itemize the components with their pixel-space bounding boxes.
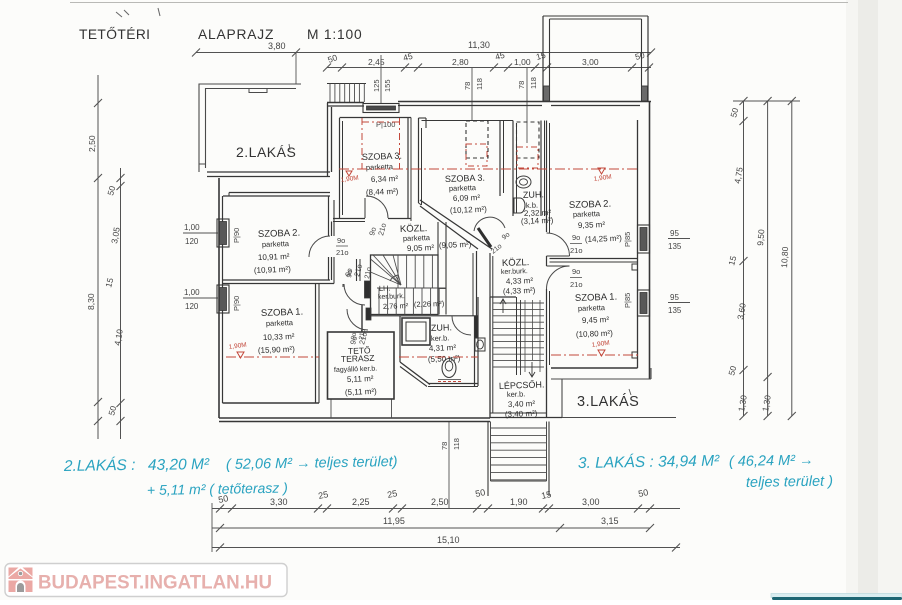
svg-text:ker.b.: ker.b. — [507, 389, 526, 399]
red dash-dot line lower left — [226, 356, 319, 358]
SZOBA3-right room walls — [418, 118, 420, 203]
door leaf on diagonal — [478, 228, 491, 247]
door arc SZOBA1-left — [344, 284, 365, 305]
dormer window right — [642, 86, 648, 101]
svg-text:parketta: parketta — [266, 318, 294, 328]
svg-text:BUDAPEST.INGATLAN.HU: BUDAPEST.INGATLAN.HU — [38, 572, 272, 594]
top dimension line 50/2,45/45/2,80/45/1,00/15/3,00/50 — [327, 67, 651, 69]
svg-text:1,00: 1,00 — [514, 57, 531, 67]
svg-text:M 1:100: M 1:100 — [307, 27, 362, 42]
svg-text:9o: 9o — [337, 236, 345, 245]
ZUH-left bottom wall — [428, 383, 478, 385]
svg-text:9,35 m²: 9,35 m² — [578, 220, 606, 230]
wall piece between corridor doors — [361, 305, 363, 332]
notch on 2.LAKAS top wall — [249, 89, 267, 93]
svg-text:1,90: 1,90 — [510, 497, 528, 507]
svg-text:+ 5,11 m² ( tetőterasz ): + 5,11 m² ( tetőterasz ) — [147, 480, 288, 498]
svg-text:4,31 m²: 4,31 m² — [429, 343, 457, 353]
svg-text:parketta: parketta — [449, 183, 477, 193]
svg-text:( 46,24 M² →: ( 46,24 M² → — [729, 453, 814, 470]
svg-text:SZOBA 2.: SZOBA 2. — [258, 228, 301, 240]
svg-text:21o: 21o — [570, 246, 583, 255]
stray pen marks top-left — [116, 12, 122, 17]
svg-text:11,95: 11,95 — [383, 516, 405, 526]
svg-text:95: 95 — [670, 229, 679, 238]
svg-text:25: 25 — [386, 488, 398, 500]
svg-text:3,30: 3,30 — [270, 497, 288, 507]
stair inner rails — [524, 300, 526, 372]
right dimension line 1 — [743, 101, 745, 416]
window callout 1,00/1,20 lower — [183, 297, 218, 299]
svg-text:3,00: 3,00 — [582, 57, 599, 67]
svg-text:1,00: 1,00 — [184, 223, 200, 232]
svg-text:6,09 m²: 6,09 m² — [453, 193, 481, 203]
svg-text:ZUH.: ZUH. — [523, 189, 544, 200]
wall stair box to ZUH-left — [371, 315, 478, 317]
LH stair outer right wall — [445, 255, 447, 315]
svg-text:(5,50 m²): (5,50 m²) — [428, 354, 461, 364]
wall between SZOBA2-left and SZOBA1-left — [223, 279, 331, 281]
shower tray ZUH-left — [402, 318, 430, 345]
door arc SZOBA3-left — [366, 196, 388, 218]
svg-text:120: 120 — [185, 302, 199, 311]
svg-text:2,50: 2,50 — [431, 497, 449, 507]
black dashed skylight rect SZOBA3-right — [466, 121, 488, 158]
left end verticals of bottom dims — [211, 503, 213, 552]
svg-text:9o: 9o — [346, 269, 354, 278]
top dimension line 3,80 / 11,30 — [196, 52, 651, 54]
top protrusion right side double wall — [641, 19, 643, 101]
sink ZUH-right — [514, 198, 525, 213]
wall right of SZOBA2/SZOBA1-left (corridor wall) — [328, 196, 330, 236]
terrace-to-wall connectors — [330, 399, 332, 418]
horizontal tick bars right top — [733, 100, 800, 102]
svg-text:2,50: 2,50 — [87, 135, 97, 152]
window callout 95/135 lower — [668, 302, 690, 304]
svg-text:ZUH.: ZUH. — [431, 322, 452, 333]
SZOBA3-left bottom wall — [333, 218, 365, 220]
entry stairs below building — [487, 422, 489, 497]
svg-text:118: 118 — [475, 78, 484, 90]
left outer wall of lower-left block — [218, 178, 220, 418]
wall poche at terrace door — [366, 308, 371, 320]
svg-text:ker.burk.: ker.burk. — [378, 293, 405, 301]
svg-text:SZOBA 3.: SZOBA 3. — [362, 151, 402, 162]
wall: 2.LAKAS right / plan top-left corner vertical — [327, 103, 329, 177]
svg-text:21o: 21o — [570, 280, 583, 289]
extension line + rotated labels 125/155 — [380, 55, 382, 103]
main top outer wall — [327, 102, 364, 104]
wall ZUH-right / SZOBA2-right — [546, 121, 548, 233]
red rect SZOBA3-right skylight — [466, 144, 487, 166]
svg-text:125: 125 — [372, 79, 381, 92]
svg-text:2,45: 2,45 — [368, 57, 385, 67]
SZOBA2-left top wall — [229, 192, 330, 194]
window in left wall upper — [217, 219, 229, 247]
svg-text:135: 135 — [668, 242, 682, 251]
svg-text:(9,05 m²): (9,05 m²) — [439, 240, 472, 250]
wall right of KOZL-left — [437, 222, 439, 255]
right dimension line 2 — [767, 101, 769, 416]
KOZL-left left wall with door — [331, 222, 333, 237]
svg-text:120: 120 — [185, 237, 199, 246]
svg-text:2,76 m²: 2,76 m² — [383, 301, 409, 311]
stair mid divider — [516, 297, 518, 375]
wall between SZOBA2-right and SZOBA1-right — [550, 258, 638, 260]
red dash-dot line lower mid — [399, 356, 478, 358]
svg-text:95: 95 — [670, 293, 679, 302]
svg-text:50: 50 — [637, 487, 649, 499]
door arc SZOBA2-right — [547, 233, 570, 256]
faint scan line top — [70, 2, 848, 4]
svg-text:2.LAKÁS :: 2.LAKÁS : — [63, 457, 136, 475]
svg-text:parketta: parketta — [366, 162, 394, 172]
svg-text:78: 78 — [517, 81, 526, 89]
svg-text:9,05 m²: 9,05 m² — [407, 243, 435, 253]
SZOBA1-left right wall — [315, 284, 317, 404]
svg-text:25: 25 — [317, 489, 329, 501]
svg-text:SZOBA 1.: SZOBA 1. — [261, 307, 304, 319]
svg-text:(15,90 m²): (15,90 m²) — [258, 345, 296, 355]
svg-text:P|90: P|90 — [232, 228, 241, 243]
outer line below SZOBA1-right — [551, 378, 651, 380]
red rect ZUH-right skylight — [517, 147, 538, 168]
right outer wall — [649, 101, 651, 379]
building bottom outer wall (left section, double) — [219, 417, 490, 419]
bottom dim extension 78/118 — [448, 421, 450, 508]
dormer window left — [544, 86, 550, 101]
svg-text:9,45 m²: 9,45 m² — [582, 315, 610, 325]
svg-text:5,11 m²: 5,11 m² — [347, 374, 374, 384]
svg-text:15,10: 15,10 — [437, 535, 460, 545]
toilet ZUH-right — [516, 176, 531, 188]
svg-text:135: 135 — [668, 306, 682, 315]
ZUH-left right wall — [474, 316, 476, 386]
svg-text:(4,33 m²): (4,33 m²) — [503, 286, 536, 296]
svg-text:1,00: 1,00 — [184, 288, 200, 297]
svg-text:ker.burk.: ker.burk. — [501, 268, 528, 276]
left dimension line B — [120, 168, 122, 439]
svg-text:21o: 21o — [336, 248, 349, 257]
svg-text:TERASZ: TERASZ — [341, 353, 375, 364]
bottom dimension line 1 — [212, 508, 680, 510]
LH stair lower treads — [378, 288, 380, 315]
svg-text:155: 155 — [383, 79, 392, 92]
top protrusion (dormer) left side double wall — [542, 16, 544, 101]
svg-text:P|85: P|85 — [623, 293, 632, 308]
svg-text:(3,14 m²): (3,14 m²) — [521, 216, 554, 226]
LH stair upper treads — [397, 255, 399, 288]
svg-text:10,80: 10,80 — [779, 246, 790, 268]
top protrusion top edge — [543, 15, 648, 17]
svg-text:(5,11 m²): (5,11 m²) — [345, 387, 377, 397]
ZUH-right walls — [512, 121, 514, 217]
svg-text:10,33 m²: 10,33 m² — [263, 332, 295, 342]
3.LAKAS lower box — [561, 379, 563, 418]
red dashed skylight rect SZOBA3-left — [361, 118, 363, 169]
svg-text:3,40 m²: 3,40 m² — [508, 399, 536, 409]
corridor wall segments above shaft — [476, 251, 478, 316]
LH stair fan — [371, 259, 402, 285]
svg-text:78: 78 — [463, 82, 472, 90]
svg-text:8,30: 8,30 — [86, 293, 96, 310]
extension line + rotated labels 78/118 (left) — [471, 68, 473, 121]
svg-text:3,00: 3,00 — [582, 497, 600, 507]
stair treads LEPCSOH — [493, 302, 544, 304]
svg-text:15: 15 — [540, 489, 552, 501]
svg-text:parketta: parketta — [578, 303, 606, 313]
2.LAKAS open deck outline — [199, 84, 301, 172]
small hook right wall SZOBA2 — [632, 264, 638, 270]
stair hatch top-left (roof stairs) — [327, 83, 366, 85]
red dash-dot line lower right — [551, 354, 640, 356]
svg-text:11,30: 11,30 — [468, 40, 490, 50]
bottom dimension line 3 — [212, 547, 680, 549]
svg-text:118: 118 — [452, 438, 461, 450]
right wall window lower (95/135) — [638, 290, 650, 316]
svg-text:(14,25 m²): (14,25 m²) — [585, 234, 623, 244]
stair down arrow — [531, 362, 533, 376]
svg-text:4,33 m²: 4,33 m² — [506, 276, 534, 286]
svg-text:118: 118 — [529, 77, 538, 89]
svg-text:teljes terület ): teljes terület ) — [746, 473, 833, 491]
svg-text:78: 78 — [440, 442, 449, 450]
stair up arrow — [502, 300, 504, 313]
svg-text:P|90: P|90 — [232, 296, 241, 311]
svg-text:ker.b.: ker.b. — [431, 333, 450, 343]
wall poche shaft — [475, 316, 479, 338]
svg-text:(8,44 m²): (8,44 m²) — [366, 187, 399, 197]
right wall window upper (95/135) — [638, 225, 650, 253]
svg-text:9o: 9o — [572, 233, 580, 242]
svg-text:parketta: parketta — [403, 233, 431, 243]
extension line + rotated labels 78/118 (right) — [526, 68, 528, 143]
KOZL-left west wall pair — [356, 259, 358, 281]
svg-text:3,80: 3,80 — [268, 41, 286, 51]
window callout 1,00/1,20 upper — [183, 232, 218, 234]
TETO TERASZ box — [328, 332, 395, 399]
2.LAKAS bottom thick wall — [207, 171, 330, 173]
svg-text:TETŐTÉRI: TETŐTÉRI — [79, 26, 150, 42]
LH stair divider — [377, 287, 446, 289]
svg-text:50: 50 — [474, 487, 486, 499]
svg-text:parketta: parketta — [262, 239, 290, 249]
svg-text:6,34 m²: 6,34 m² — [371, 174, 399, 184]
door arc shaft to ZUH-left — [452, 316, 471, 335]
svg-text:3.LAKÁS: 3.LAKÁS — [577, 393, 639, 410]
wall between SZOBA3-right and ZUH-right — [499, 121, 501, 197]
SZOBA3-left room walls — [339, 118, 341, 218]
right dimension line 3 — [791, 101, 793, 416]
toilet ZUH-left — [442, 359, 456, 378]
svg-text:P|100: P|100 — [376, 120, 395, 129]
teal ui bar bottom right — [771, 594, 902, 598]
LEPCSOH stairwell box — [489, 297, 491, 418]
svg-text:2.LAKÁS: 2.LAKÁS — [236, 144, 296, 160]
toilet base red dashes — [438, 381, 461, 383]
svg-text:parketta: parketta — [573, 209, 601, 219]
window P100 in top wall — [363, 104, 399, 113]
red dash-dot line upper (1,90 m headroom) — [339, 168, 640, 170]
ZUH-left diagonal wall — [400, 362, 430, 385]
window in left wall lower — [217, 285, 229, 313]
svg-text:9,50: 9,50 — [755, 229, 766, 247]
door arc corridor to terrace area — [347, 309, 368, 330]
svg-text:3. LAKÁS : 34,94 M²: 3. LAKÁS : 34,94 M² — [578, 453, 720, 472]
svg-text:(3,40 m²): (3,40 m²) — [505, 409, 538, 419]
svg-text:(10,12 m²): (10,12 m²) — [450, 205, 488, 215]
svg-text:ALAPRAJZ: ALAPRAJZ — [198, 27, 274, 42]
svg-text:2,25: 2,25 — [352, 497, 370, 507]
svg-text:(10,91 m²): (10,91 m²) — [254, 265, 292, 275]
black dashed skylight rect ZUH-right — [517, 122, 540, 158]
watermark house icon — [9, 568, 33, 593]
diagonal walls KOZL-right — [420, 200, 492, 249]
svg-text:43,20 M²: 43,20 M² — [148, 456, 210, 474]
door arc SZOBA1-right — [547, 266, 570, 289]
svg-text:2,80: 2,80 — [452, 57, 469, 67]
SZOBA1-left bottom inner wall — [223, 402, 320, 404]
svg-text:LH.: LH. — [379, 284, 391, 293]
LH stair box (left apt) — [371, 255, 439, 315]
svg-text:SZOBA 3.: SZOBA 3. — [445, 173, 485, 184]
ZUH-left room — [399, 316, 401, 362]
svg-text:9o: 9o — [572, 267, 580, 276]
svg-text:10,91 m²: 10,91 m² — [258, 252, 290, 262]
SZOBA3-right bottom wall to diagonal — [419, 203, 422, 205]
svg-text:( 52,06 M² → teljes terület): ( 52,06 M² → teljes terület) — [226, 454, 398, 473]
KOZL-left left wall lower segment — [331, 257, 333, 280]
red marker + label SZOBA3-left — [346, 171, 352, 176]
door arc SZOBA2-left — [309, 236, 330, 257]
svg-text:(10,80 m²): (10,80 m²) — [576, 329, 614, 339]
sink in shaft — [475, 338, 485, 351]
SZOBA1-right bottom inner wall — [551, 367, 638, 369]
svg-text:3,15: 3,15 — [601, 516, 619, 526]
red marker + label SZOBA2-right — [598, 168, 605, 174]
window callout 95/135 upper — [668, 238, 690, 240]
svg-text:P|85: P|85 — [623, 232, 632, 247]
bottom dimension line 2 — [212, 527, 650, 529]
watermark panel — [5, 564, 287, 597]
wall poche at SZOBA1-left door — [365, 281, 371, 298]
svg-text:(2,26 m²): (2,26 m²) — [414, 299, 445, 309]
left dimension line A — [97, 75, 99, 439]
svg-text:SZOBA 1.: SZOBA 1. — [575, 292, 618, 304]
